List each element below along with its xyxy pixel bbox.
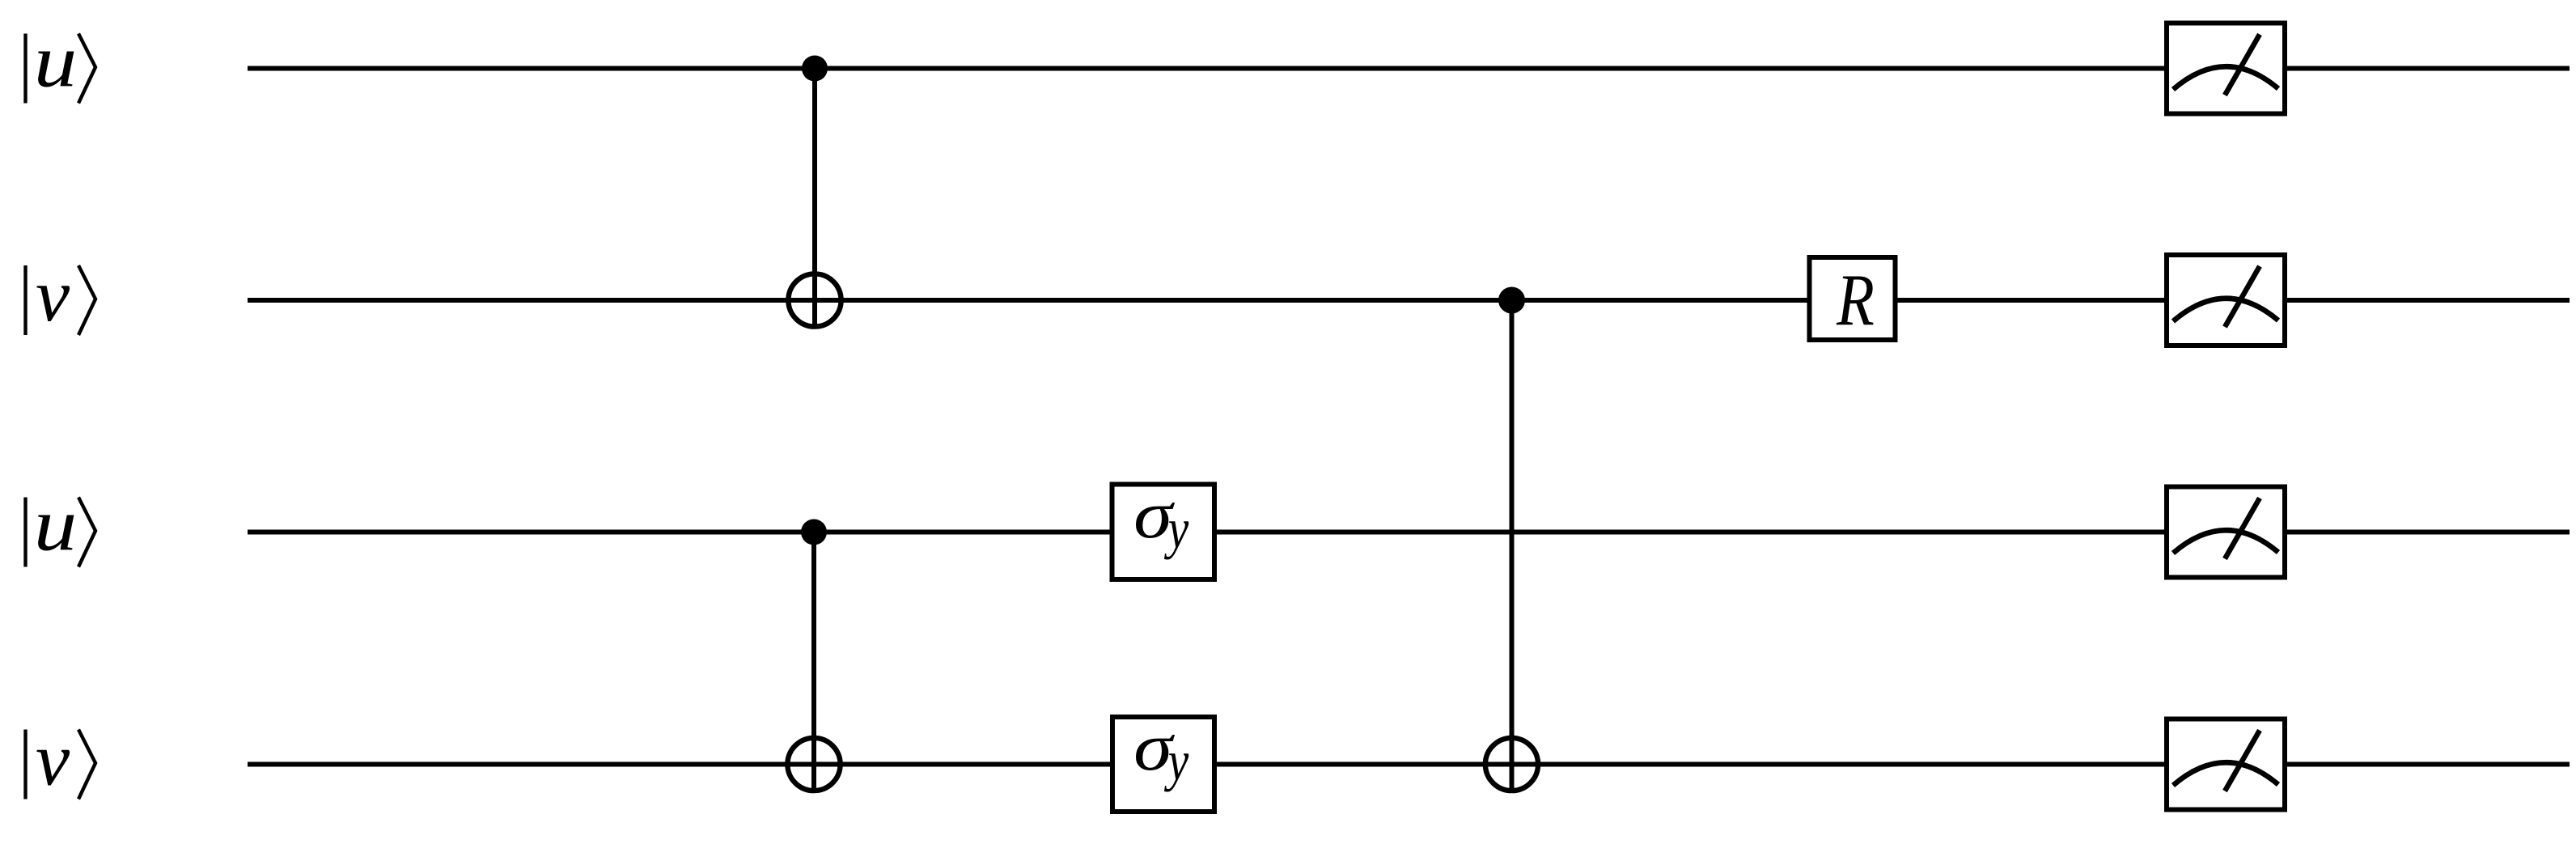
- measurement meter (wire 4): [2167, 719, 2285, 810]
- gate sigma_y box (wire 3): [1112, 477, 1215, 579]
- wire 1: [248, 66, 2570, 71]
- wire 4: [248, 762, 2570, 767]
- measurement meter (wire 2): [2167, 255, 2285, 346]
- CNOT 3 control dot (wire 2): [1498, 287, 1525, 314]
- CNOT 3 vertical connector (wire 2 to wire 4): [1510, 300, 1515, 792]
- qubit label |v> (wire 4): [26, 718, 96, 801]
- measurement meter (wire 1): [2167, 23, 2285, 114]
- CNOT 1 target XOR circle (wire 2): [788, 274, 841, 326]
- svg-text:v: v: [36, 254, 70, 337]
- CNOT 1 control dot (wire 1): [802, 56, 828, 82]
- qubit label |v> (wire 2): [26, 254, 96, 337]
- gate sigma_y box (wire 4): [1112, 709, 1214, 812]
- svg-text:u: u: [34, 19, 77, 103]
- CNOT 1 vertical connector (wire 1 to wire 2): [812, 69, 817, 329]
- measurement meter (wire 3): [2167, 487, 2285, 578]
- qubit label |u> (wire 3): [26, 483, 96, 567]
- CNOT 2 target XOR circle (wire 4): [787, 738, 840, 791]
- svg-text:v: v: [36, 718, 70, 801]
- gate R box (wire 2): [1810, 257, 1896, 341]
- CNOT 3 target XOR circle (wire 4): [1485, 738, 1538, 791]
- svg-text:R: R: [1836, 260, 1875, 341]
- wire 2: [248, 298, 2570, 303]
- wire 3: [248, 530, 2570, 535]
- svg-text:u: u: [34, 483, 77, 566]
- CNOT 2 vertical connector (wire 3 to wire 4): [811, 532, 816, 793]
- qubit label |u> (wire 1): [26, 19, 96, 104]
- svg-text:y: y: [1163, 497, 1188, 560]
- svg-text:y: y: [1163, 729, 1188, 792]
- CNOT 2 control dot (wire 3): [801, 520, 827, 545]
